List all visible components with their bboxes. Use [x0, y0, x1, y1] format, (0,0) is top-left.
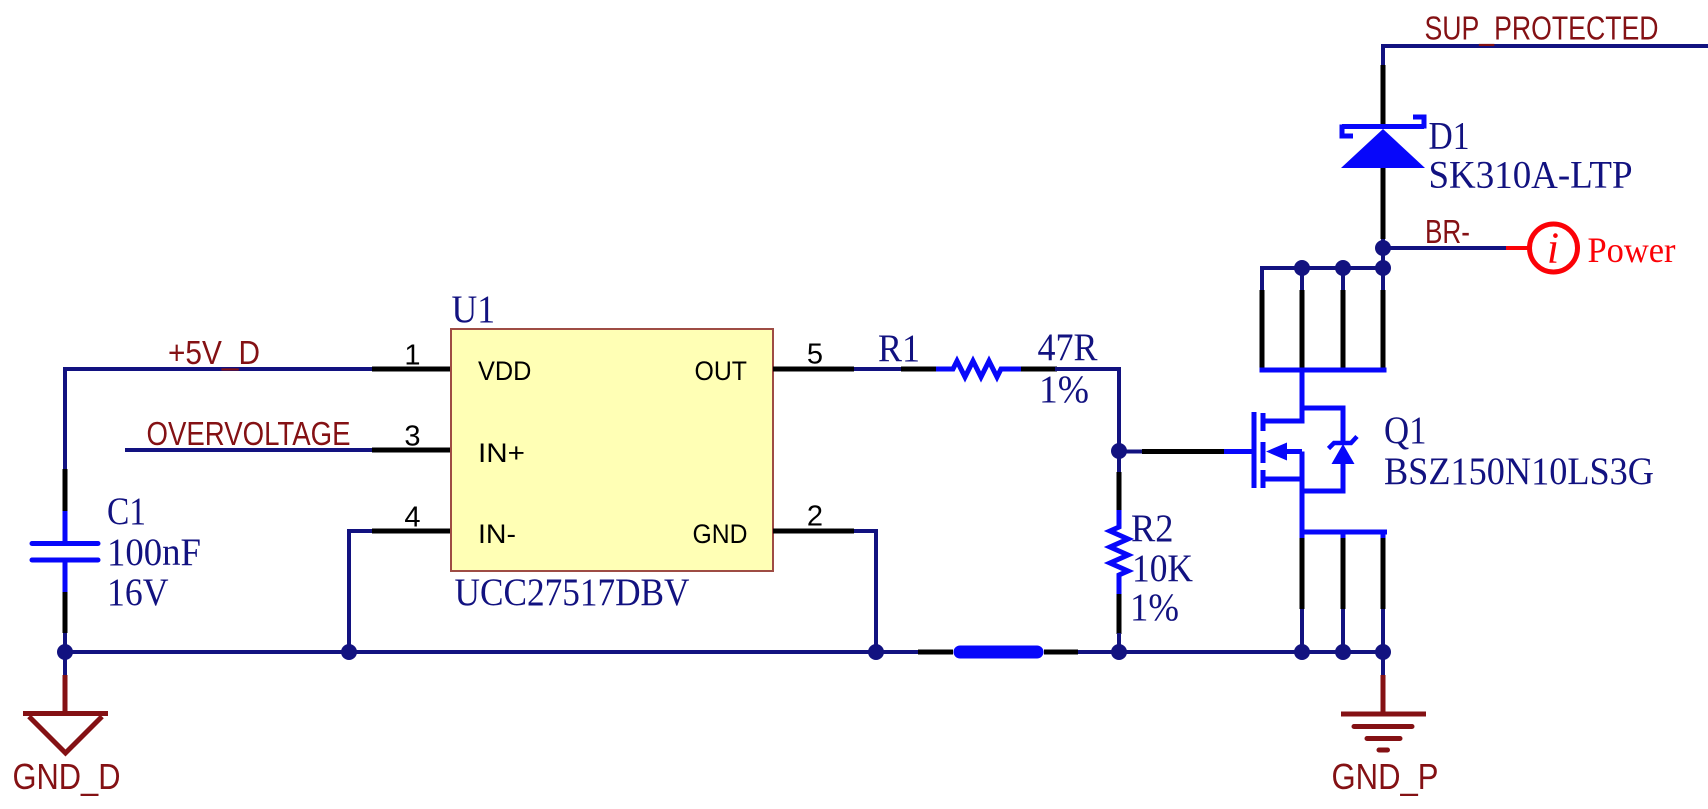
svg-text:1: 1: [404, 340, 420, 372]
junction bus at Q1 source pin 2: [1335, 644, 1351, 660]
svg-text:R1: R1: [878, 327, 920, 370]
ground symbol GND_D: [23, 652, 108, 753]
svg-text:4: 4: [404, 502, 420, 534]
wire gate node down to R2: [1117, 451, 1121, 474]
svg-text:VDD: VDD: [478, 356, 531, 386]
junction bus at R2: [1111, 644, 1127, 660]
svg-text:BSZ150N10LS3G: BSZ150N10LS3G: [1384, 450, 1654, 493]
svg-text:i: i: [1547, 224, 1559, 273]
junction drain rail pin 3: [1335, 260, 1351, 276]
svg-text:100nF: 100nF: [107, 531, 201, 574]
wire ground bus: [65, 650, 920, 654]
capacitor C1: [32, 469, 98, 652]
wire BR- node down to drain rail: [1381, 248, 1385, 268]
pin U1.5 OUT: [773, 367, 854, 372]
Q1 source bar: [1300, 530, 1388, 535]
wire OUT to R1: [854, 367, 903, 371]
svg-text:5: 5: [807, 339, 823, 371]
ground symbol GND_P: [1341, 652, 1426, 750]
IC U1 body: [451, 329, 773, 571]
svg-text:47R: 47R: [1038, 326, 1098, 369]
wire SUP_PROTECTED: [1383, 44, 1708, 66]
Q1 body diode triangle: [1332, 444, 1355, 464]
svg-text:OUT: OUT: [695, 356, 748, 386]
power port Power circle-i: [1506, 224, 1578, 273]
svg-text:GND_P: GND_P: [1332, 756, 1439, 797]
svg-text:Q1: Q1: [1384, 409, 1427, 452]
wire ground bus right: [1078, 650, 1385, 654]
svg-text:SUP_PROTECTED: SUP_PROTECTED: [1425, 10, 1659, 47]
svg-text:2: 2: [807, 501, 823, 533]
svg-text:GND_D: GND_D: [13, 756, 121, 797]
junction BR- node: [1375, 240, 1391, 256]
pin U1.2 GND: [773, 529, 854, 534]
resistor R2: [1110, 472, 1128, 652]
Q1 source pins (3x): [1302, 532, 1383, 652]
svg-text:1%: 1%: [1130, 586, 1179, 629]
junction bus at U1 GND: [868, 644, 884, 660]
net tie NT1 pin 2: [1044, 650, 1078, 655]
svg-text:10K: 10K: [1132, 547, 1193, 590]
junction drain rail pin 2: [1294, 260, 1310, 276]
wire Q1 drain rail: [1260, 266, 1385, 270]
pin U1.1 VDD: [372, 367, 452, 372]
junction bus at C1: [57, 644, 73, 660]
wire IN- to bus: [349, 531, 372, 652]
svg-text:OVERVOLTAGE: OVERVOLTAGE: [147, 415, 351, 452]
net tie NT1 body: [960, 646, 1037, 659]
wire BR-: [1383, 246, 1506, 250]
svg-text:BR-: BR-: [1425, 213, 1470, 250]
svg-text:IN+: IN+: [478, 438, 525, 468]
svg-text:D1: D1: [1429, 115, 1470, 158]
wire D1 anode to BR- node: [1381, 239, 1385, 250]
transistor Q1: [1222, 370, 1343, 532]
resistor R1: [901, 361, 1057, 377]
junction bus at Q1 source pin 1: [1294, 644, 1310, 660]
pin Q1 gate: [1142, 449, 1224, 454]
svg-text:+5V_D: +5V_D: [168, 334, 260, 371]
svg-text:1%: 1%: [1039, 368, 1089, 411]
diode D1: [1341, 65, 1425, 239]
net tie NT1 pin 1: [918, 650, 953, 655]
pin U1.3 IN+: [372, 448, 452, 453]
svg-text:IN-: IN-: [478, 519, 516, 549]
svg-text:U1: U1: [452, 288, 496, 331]
svg-text:Power: Power: [1588, 230, 1676, 270]
junction bus at IN-: [341, 644, 357, 660]
svg-text:16V: 16V: [107, 571, 169, 614]
svg-text:3: 3: [404, 421, 420, 453]
wire gate node to Q1 gate: [1119, 450, 1144, 454]
svg-text:SK310A-LTP: SK310A-LTP: [1429, 154, 1633, 197]
wire R1 to gate node: [1055, 369, 1119, 451]
svg-text:GND: GND: [693, 519, 748, 549]
svg-text:R2: R2: [1131, 507, 1174, 550]
wire +5V_D rail: [65, 369, 372, 470]
Q1 drain pins (4x): [1260, 268, 1387, 370]
wire OVERVOLTAGE: [125, 448, 372, 452]
svg-text:C1: C1: [107, 490, 146, 533]
junction gate node: [1111, 443, 1127, 459]
wire U1 GND to bus: [854, 531, 876, 652]
junction drain rail pin 4: [1375, 260, 1391, 276]
svg-text:UCC27517DBV: UCC27517DBV: [455, 571, 690, 614]
Q1 gate arrow: [1266, 443, 1287, 461]
pin U1.4 IN-: [372, 529, 452, 534]
Q1 body diode zener bar: [1329, 437, 1358, 449]
junction bus at Q1 source pin 3: [1375, 644, 1391, 660]
